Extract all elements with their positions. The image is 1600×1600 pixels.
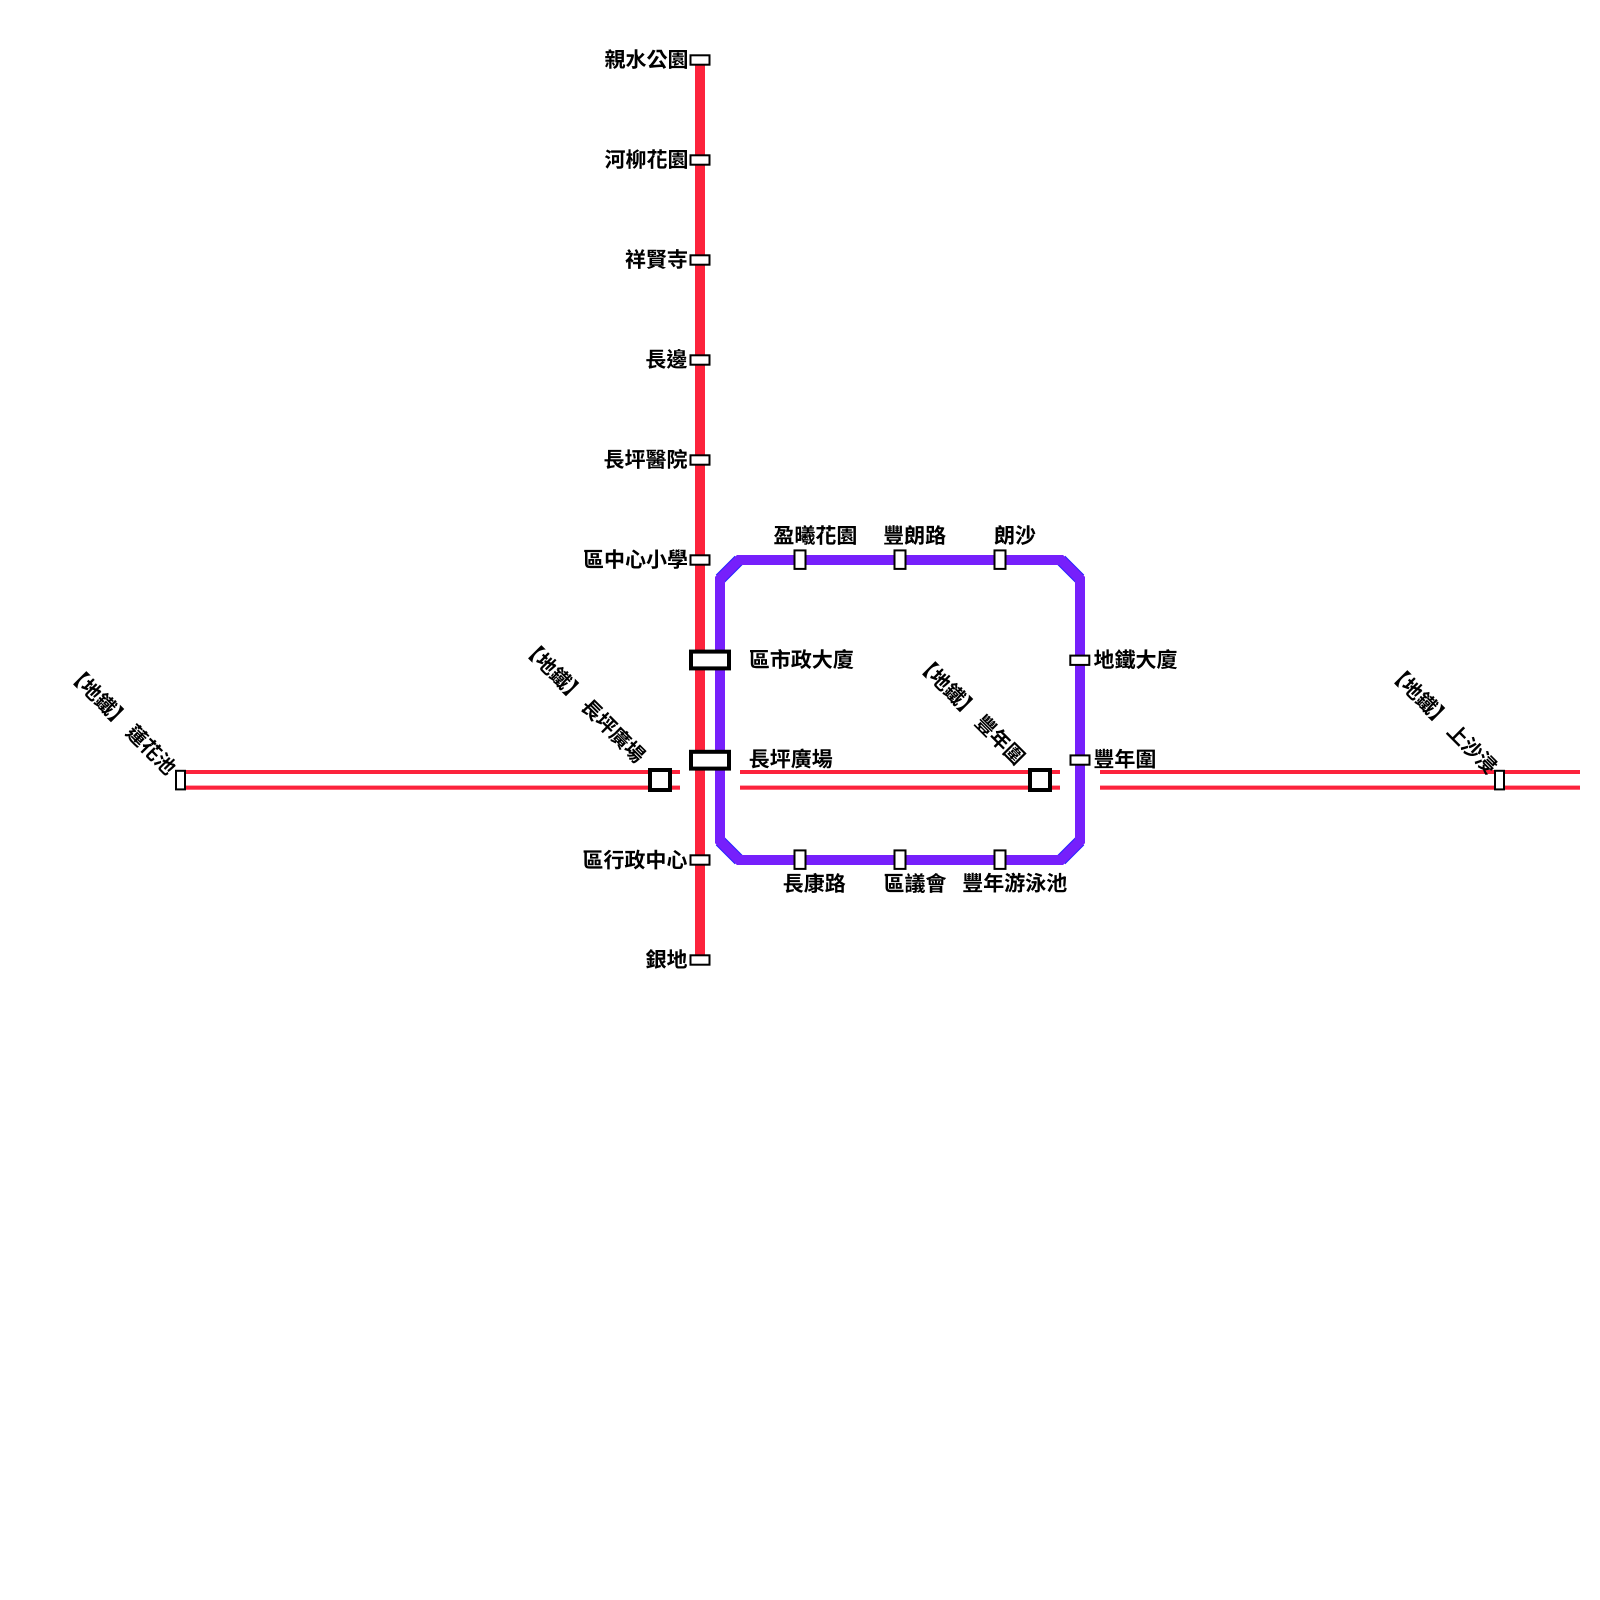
metro terminus marker 上沙浸 <box>1495 771 1504 790</box>
station marker 長邊 <box>691 355 710 364</box>
metro line upper track segment x740-1060 <box>740 770 1060 774</box>
loop station marker 朗沙 <box>995 550 1006 569</box>
metro line lower track segment x186-680 <box>186 786 680 790</box>
station marker 長坪醫院 <box>691 455 710 464</box>
label 豐朗路 <box>884 525 946 545</box>
label 區市政大廈 <box>750 649 853 669</box>
label 豐年圍 <box>1095 749 1155 769</box>
label 親水公園 <box>605 49 687 69</box>
loop station marker 豐朗路 <box>895 550 906 569</box>
label 河柳花園 <box>605 149 687 169</box>
rotated label 【地鐵】 上沙浸 <box>1394 670 1500 776</box>
station marker 銀地 <box>691 955 710 964</box>
tram line vertical (red) x=700 <box>695 60 705 960</box>
interchange station marker 區市政大廈 <box>691 652 729 669</box>
metro line upper track segment x1100-1580 <box>1100 770 1580 774</box>
loop line top-right bevel blue edge <box>1061 560 1080 579</box>
loop station marker 豐年游泳池 <box>995 850 1006 869</box>
loop station marker 長康路 <box>795 850 806 869</box>
metro line lower track segment x1100-1580 <box>1100 786 1580 790</box>
loop line bottom-left bevel blue edge <box>720 841 739 860</box>
metro interchange marker 長坪廣場 <box>650 770 670 790</box>
interchange station marker 長坪廣場 <box>691 752 729 769</box>
label 長康路 <box>784 873 846 893</box>
label 區議會 <box>885 873 947 893</box>
metro line upper track segment x186-680 <box>186 770 680 774</box>
loop station marker 區議會 <box>895 850 906 869</box>
rotated label 【地鐵】 長坪廣場 <box>528 645 648 765</box>
loop line bottom-right bevel blue edge <box>1061 841 1080 860</box>
loop line top-left bevel blue edge <box>720 560 739 579</box>
label 區中心小學 <box>584 549 687 569</box>
label 豐年游泳池 <box>963 873 1066 893</box>
label 朗沙 <box>995 525 1036 545</box>
label 地鐵大廈 <box>1094 649 1177 669</box>
station marker 區行政中心 <box>691 855 710 864</box>
rotated label 【地鐵】 蓮花池 <box>73 671 179 777</box>
label 祥賢寺 <box>625 249 687 269</box>
loop station marker 地鐵大廈 <box>1070 656 1089 665</box>
label 長坪廣場 <box>750 749 832 769</box>
metro terminus marker 蓮花池 <box>176 771 185 790</box>
station marker 區中心小學 <box>691 555 710 564</box>
station marker 祥賢寺 <box>691 255 710 264</box>
rotated label 【地鐵】 豐年圍 <box>922 661 1027 766</box>
station marker 親水公園 <box>691 55 710 64</box>
metro interchange marker 豐年圍 <box>1030 770 1050 790</box>
loop station marker 盈曦花園 <box>795 550 806 569</box>
label 區行政中心 <box>584 850 687 870</box>
label 盈曦花園 <box>774 525 856 545</box>
station marker 河柳花園 <box>691 155 710 164</box>
metro line lower track segment x740-1060 <box>740 786 1060 790</box>
label 長坪醫院 <box>605 449 688 469</box>
label 銀地 <box>646 949 687 969</box>
tram loop line (purple octagon) <box>720 560 1080 860</box>
loop station marker 豐年圍 <box>1071 755 1090 764</box>
label 長邊 <box>646 349 687 369</box>
